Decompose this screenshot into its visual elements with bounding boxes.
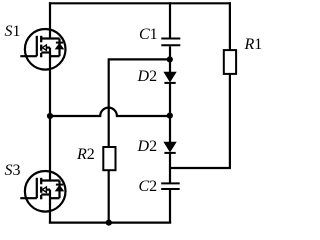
wire left rail upper (top bus to S1 drain) xyxy=(49,2,51,38)
wire top bus xyxy=(49,2,231,4)
wire junction to R2 branch xyxy=(109,58,170,60)
label D2 (upper) xyxy=(138,69,158,85)
label C1 xyxy=(139,27,158,43)
resistor R2 xyxy=(103,58,115,222)
wire C2/D2 tap to R1 bottom xyxy=(170,167,231,169)
label R1 xyxy=(245,37,263,53)
wire middle link with hop over R2 branch xyxy=(50,108,170,116)
label C2 xyxy=(139,179,158,195)
label S1 xyxy=(5,24,21,40)
transistor S1 xyxy=(20,29,65,70)
transistor S3 xyxy=(20,171,65,212)
diode D2 (upper) xyxy=(164,59,176,115)
wire left rail lower (S3 source to bottom bus) xyxy=(49,190,51,224)
node: left rail / middle link junction xyxy=(47,113,53,119)
node: R2 bottom / bottom bus junction xyxy=(106,220,112,226)
diode D2 (lower) xyxy=(164,116,176,183)
label R2 xyxy=(77,147,95,163)
node: C1 / D2 / R2-branch junction xyxy=(167,56,173,62)
wire bottom bus xyxy=(49,222,171,224)
node: D2 / D2 / middle link junction xyxy=(167,113,173,119)
label D2 (lower) xyxy=(138,139,158,155)
capacitor C2 xyxy=(161,183,180,222)
wire left rail middle (S1 source to S3 drain) xyxy=(49,48,51,181)
label S3 xyxy=(5,163,21,179)
resistor R1 xyxy=(224,2,236,168)
capacitor C1 xyxy=(161,2,180,59)
